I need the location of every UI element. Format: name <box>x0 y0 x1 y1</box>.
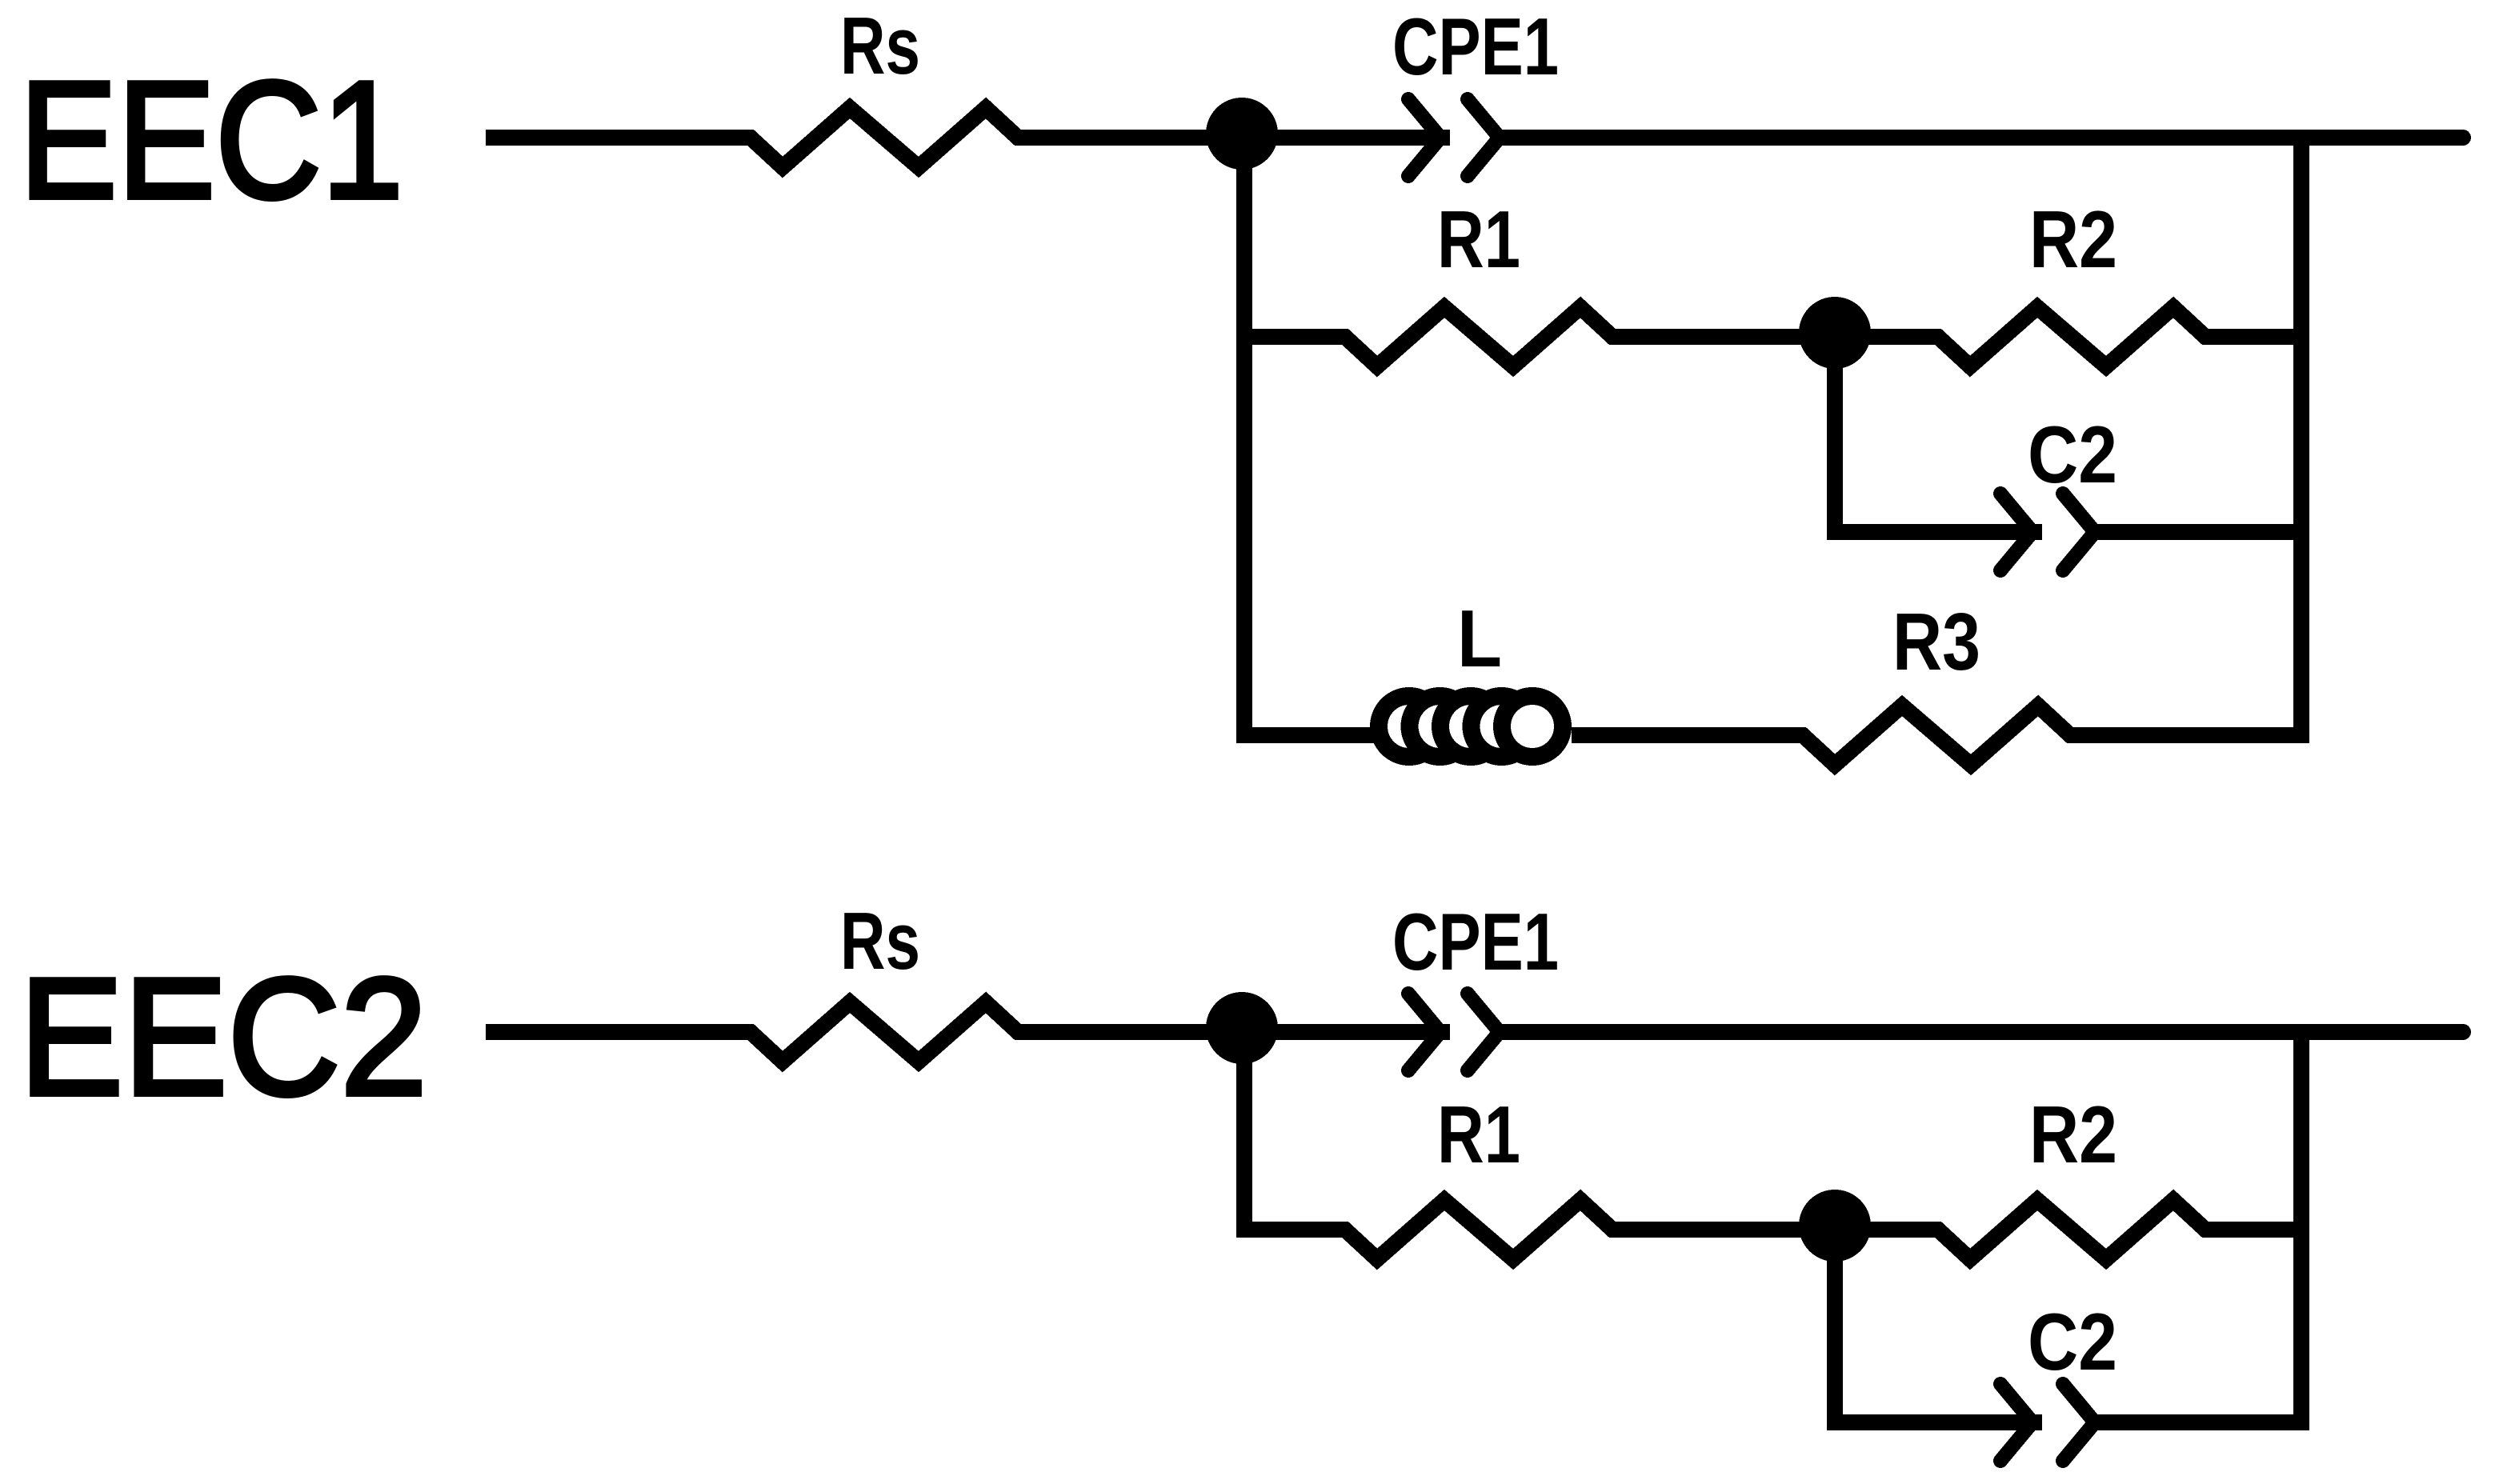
resistor R1 (EEC1) with leads from left rail to node B <box>1244 307 1835 366</box>
svg-text:EEC1: EEC1 <box>19 47 403 234</box>
inductor L (EEC1) coil 5 <box>1502 696 1563 757</box>
svg-text:R1: R1 <box>1437 195 1520 285</box>
wire: left rail (EEC1) node A down to inductor L <box>1244 138 1380 735</box>
capacitor CPE1 (EEC2) chevron 2 <box>1468 994 1500 1070</box>
svg-text:C2: C2 <box>2028 410 2117 500</box>
svg-text:L: L <box>1457 594 1502 684</box>
svg-text:Rs: Rs <box>840 2 920 91</box>
svg-text:CPE1: CPE1 <box>1392 898 1559 987</box>
capacitor CPE1 (EEC2) chevron 1 <box>1408 994 1440 1070</box>
node B (EEC2 junction) <box>1799 1190 1871 1262</box>
capacitor C2 (EEC2) chevron 2 <box>2063 1384 2095 1461</box>
node A (EEC1 junction) <box>1206 98 1278 170</box>
node B (EEC1 junction) <box>1799 297 1871 369</box>
node A (EEC2 junction) <box>1206 992 1278 1064</box>
wire: C2 to right rail (EEC1) <box>2095 524 2301 540</box>
wire: node B down to capacitor C2 (EEC1) <box>1835 337 2042 532</box>
svg-text:R1: R1 <box>1437 1090 1520 1180</box>
capacitor C2 (EEC1) chevron 2 <box>2063 494 2095 570</box>
svg-text:EEC2: EEC2 <box>19 944 427 1130</box>
resistor R1 (EEC2) with left rail lead from node A to node B <box>1244 1032 1835 1259</box>
capacitor CPE1 (EEC1) chevron 2 <box>1468 99 1500 176</box>
wire with resistor Rs (EEC1): left terminal to node A <box>486 108 1450 167</box>
resistor R2 (EEC2) with leads from node B to right rail <box>1835 1200 2301 1259</box>
svg-text:C2: C2 <box>2028 1298 2117 1387</box>
wire with resistor Rs (EEC2): left terminal to node A <box>486 1002 1450 1062</box>
svg-text:R3: R3 <box>1892 598 1980 687</box>
inductor L (EEC1) coil 2 <box>1410 696 1471 757</box>
capacitor C2 (EEC2) chevron 1 <box>2000 1384 2032 1461</box>
resistor R2 (EEC1) with leads from node B to right rail <box>1835 307 2301 366</box>
svg-text:R2: R2 <box>2029 1090 2117 1180</box>
inductor L (EEC1) coil 1 <box>1379 696 1440 757</box>
wire: node B down to capacitor C2 (EEC2) <box>1835 1230 2042 1422</box>
wire: C2 to right rail (EEC2), rail up to the top wire <box>2095 1032 2301 1422</box>
svg-text:CPE1: CPE1 <box>1392 2 1559 92</box>
inductor L (EEC1) coil 4 <box>1472 696 1532 757</box>
svg-text:Rs: Rs <box>840 897 920 986</box>
inductor L (EEC1) coil 3 <box>1440 696 1501 757</box>
wire: CPE1 to right terminal (EEC1) <box>1500 130 2463 146</box>
resistor R3 (EEC1) with leads, bottom wire and right rail up to the top wire <box>1572 138 2301 765</box>
capacitor CPE1 (EEC1) chevron 1 <box>1408 99 1440 176</box>
capacitor C2 (EEC1) chevron 1 <box>2000 494 2032 570</box>
wire: CPE1 to right terminal (EEC2) <box>1500 1024 2463 1040</box>
svg-text:R2: R2 <box>2029 195 2117 285</box>
